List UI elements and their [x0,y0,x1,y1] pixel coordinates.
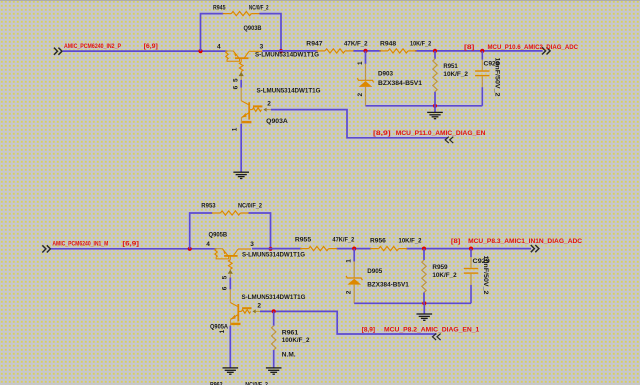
svg-text:5: 5 [221,275,228,279]
svg-text:[8]: [8] [464,44,474,51]
junction [422,301,426,305]
value label BZX384-B5V1 [367,282,409,289]
net label [8,9] MCU_P8.2_AMIC_DIAG_EN_1 [362,327,480,334]
value label NC/0/F_2 R962 [245,382,268,385]
pin number 2 D903 [357,93,364,97]
net label AMIC_PCM6240_IN2_P [6,9] [64,43,158,50]
svg-text:2: 2 [357,93,364,97]
wire interstage [229,278,231,290]
transistor Q903B [226,51,263,80]
value label 10K/F_2 [399,238,422,245]
svg-text:6: 6 [232,85,239,89]
svg-text:10nF/50V_2: 10nF/50V_2 [493,58,500,97]
label R955 [295,237,312,244]
svg-text:3: 3 [250,241,254,248]
junction R961 tap [272,309,276,313]
pin number 1 D903 [357,61,364,65]
svg-text:R961: R961 [282,329,299,336]
value label 47K/F_2 [332,237,354,244]
port MCU_P8.3_AMIC1_IN1N_DIAG_ADC [531,245,539,252]
capacitor C928 [475,51,489,106]
ground [427,112,443,118]
junction [433,104,437,108]
svg-text:4: 4 [217,43,221,50]
pin number 4 [206,241,210,248]
svg-text:47K/F_2: 47K/F_2 [332,237,354,244]
resistor R955 [300,247,337,251]
transistor Q905A [230,289,260,325]
svg-text:[8,9]: [8,9] [373,130,391,137]
label R951 [443,63,458,70]
svg-text:R959: R959 [432,264,448,271]
port input AMIC_PCM6240_IN1_M [42,245,50,252]
pin number 2 D905 [346,290,353,294]
label R953 [201,203,216,210]
value label 10K/F_2 R959 [432,272,457,279]
svg-text:S-LMUN5314DW1T1G: S-LMUN5314DW1T1G [242,252,305,259]
junction [363,49,367,53]
svg-text:1: 1 [357,61,364,65]
junction [469,247,473,251]
junction [433,49,437,53]
wire ground stem [423,303,425,314]
transistor Q905B [215,249,252,278]
wire R945 left leg [201,14,224,52]
label Q903B [244,25,262,32]
svg-text:S-LMUN5314DW1T1G: S-LMUN5314DW1T1G [257,87,321,94]
resistor R948 [380,49,417,53]
svg-text:Q903B: Q903B [244,25,262,32]
pin number 2 [267,101,271,108]
svg-text:R951: R951 [443,63,458,70]
svg-text:MCU_P11.0_AMIC_DIAG_EN: MCU_P11.0_AMIC_DIAG_EN [396,130,486,137]
svg-text:MCU_P10.6_AMIC2_DIAG_ADC: MCU_P10.6_AMIC2_DIAG_ADC [488,44,579,51]
label S-LMUN5314DW1T1G Q905A [242,294,306,301]
junction [480,49,484,53]
wire pin2 to EN port [271,110,447,138]
svg-text:2: 2 [346,290,353,294]
label C928 [484,61,500,68]
pin number 2 [257,303,261,310]
svg-text:[8,9]: [8,9] [362,327,375,334]
svg-text:R947: R947 [306,40,323,47]
svg-text:MCU_P8.2_AMIC_DIAG_EN_1: MCU_P8.2_AMIC_DIAG_EN_1 [384,327,480,334]
pin number 6 [221,286,228,290]
label S-LMUN5314DW1T1G Q903A [257,87,321,94]
pin number 4 [217,43,221,50]
wire ground stem [434,106,436,112]
wire interstage [240,80,242,88]
value label 100K/F_2 [282,337,310,344]
ground [266,368,282,374]
svg-text:NC/0/F_2: NC/0/F_2 [249,4,269,11]
net label AMIC_PCM6240_IN1_M [6,9] [52,240,139,247]
label R961 [282,329,299,336]
port MCU_P8.2_AMIC_DIAG_EN_1 [433,334,441,340]
label D905 [367,268,382,275]
label R948 [380,40,397,47]
svg-text:D905: D905 [367,268,382,275]
svg-text:N.M.: N.M. [282,352,296,359]
svg-text:AMIC_PCM6240_IN2_P: AMIC_PCM6240_IN2_P [64,43,122,50]
svg-text:2: 2 [257,303,261,310]
wire pin2 to EN1 port [260,311,437,334]
value label NC/0/F_2 [249,4,269,11]
svg-text:R948: R948 [380,40,397,47]
svg-text:R955: R955 [295,237,312,244]
pin number 3 [260,43,264,50]
svg-text:S-LMUN5314DW1T1G: S-LMUN5314DW1T1G [242,294,306,301]
svg-text:10K/F_2: 10K/F_2 [399,238,422,245]
wire emitter to ground [240,124,242,172]
resistor R945 [223,12,260,16]
svg-text:D903: D903 [378,70,393,77]
capacitor C929 [464,249,478,304]
svg-text:AMIC_PCM6240_IN1_M: AMIC_PCM6240_IN1_M [52,240,108,247]
svg-text:R956: R956 [370,238,386,245]
label D903 [378,70,393,77]
svg-text:[6,9]: [6,9] [144,43,158,50]
junction [188,247,192,251]
pin number 5 [221,275,228,279]
pin number 1 D905 [346,259,353,263]
label C929 [473,258,491,265]
wire bottom rail [366,105,483,107]
net label [8] MCU_P8.3_AMIC1_IN1N_DIAG_ADC [451,238,583,245]
resistor R951 [433,51,437,106]
svg-text:Q905B: Q905B [209,232,228,239]
label R947 [306,40,323,47]
wire R945 right leg [259,14,281,52]
svg-text:BZX384-B5V1: BZX384-B5V1 [378,80,422,87]
port MCU_P11.0_AMIC_DIAG_EN [445,137,453,143]
svg-text:NC/0/F_2: NC/0/F_2 [238,203,262,210]
pin number 3 [250,241,254,248]
wire emitter to ground [229,326,231,368]
svg-text:100K/F_2: 100K/F_2 [282,337,310,344]
svg-text:[6,9]: [6,9] [122,240,139,247]
svg-text:[8]: [8] [451,238,460,245]
svg-text:3: 3 [260,43,264,50]
svg-text:10nF/50V_2: 10nF/50V_2 [482,256,489,295]
svg-text:2: 2 [267,101,271,108]
value label N.M. [282,352,296,359]
diode D905 [346,262,362,304]
svg-text:MCU_P8.3_AMIC1_IN1N_DIAG_ADC: MCU_P8.3_AMIC1_IN1N_DIAG_ADC [468,238,582,245]
svg-text:1: 1 [219,329,226,333]
value label 10K/F_2 R951 [443,71,468,78]
wire input [63,50,228,52]
port input AMIC_PCM6240_IN2_P [54,48,62,55]
label Q905B [209,232,228,239]
wire top rail [262,50,542,52]
diode D903 [357,64,373,106]
label Q903A [266,118,288,125]
port MCU_P10.6_AMIC2_DIAG_ADC [542,47,550,54]
wire R953 left leg [190,213,213,249]
label S-LMUN5314DW1T1G Q905B [242,252,305,259]
svg-text:10K/F_2: 10K/F_2 [410,40,432,47]
svg-text:BZX384-B5V1: BZX384-B5V1 [367,282,409,289]
pin number 1 [232,127,239,131]
junction [279,49,283,53]
wire input [51,248,216,250]
svg-text:5: 5 [232,78,239,82]
svg-text:47K/F_2: 47K/F_2 [344,40,368,47]
svg-text:R962: R962 [210,382,223,385]
pin number 1 [219,329,226,333]
label R956 [370,238,386,245]
wire R953 right leg [249,213,271,249]
svg-text:S-LMUN5314DW1T1G: S-LMUN5314DW1T1G [255,52,319,59]
junction [198,49,202,53]
pin number 5 [232,78,239,82]
label Q905A [210,323,228,330]
net label [8,9] MCU_P11.0_AMIC_DIAG_EN [373,130,486,137]
svg-text:R953: R953 [201,203,216,210]
label R945 [213,4,226,11]
ground [223,368,239,374]
junction [268,247,272,251]
wire diode D903 top [365,51,367,64]
value label BZX384-B5V1 [378,80,422,87]
ground [233,172,249,178]
value label 10K/F_2 [410,40,432,47]
value label 47K/F_2 [344,40,368,47]
svg-text:1: 1 [346,259,353,263]
label S-LMUN5314DW1T1G Q903B [255,52,319,59]
resistor R947 [317,49,354,53]
resistor R959 [422,249,426,304]
junction [422,247,426,251]
transistor Q903A [241,88,271,124]
label R962 [210,382,223,385]
svg-text:Q903A: Q903A [266,118,288,125]
resistor R956 [370,247,407,251]
ground [417,314,433,320]
value label NC/0/F_2 [238,203,262,210]
svg-text:R945: R945 [213,4,226,11]
wire bottom rail [354,302,471,304]
resistor R953 [212,211,249,215]
svg-text:4: 4 [206,241,210,248]
svg-text:6: 6 [221,286,228,290]
value label 10nF/50V_2 [482,256,489,295]
pin number 6 [232,85,239,89]
wire bottom main rail [252,248,531,250]
junction [352,247,356,251]
wire diode D905 top [353,249,355,262]
svg-text:10K/F_2: 10K/F_2 [432,272,457,279]
label R959 [432,264,448,271]
net label [8] MCU_P10.6_AMIC2_DIAG_ADC [464,44,578,51]
svg-text:Q905A: Q905A [210,323,228,330]
resistor R961 [272,311,276,368]
value label 10nF/50V_2 [493,58,500,97]
svg-text:1: 1 [232,127,239,131]
svg-text:NC/0/F_2: NC/0/F_2 [245,382,268,385]
svg-text:10K/F_2: 10K/F_2 [443,71,468,78]
